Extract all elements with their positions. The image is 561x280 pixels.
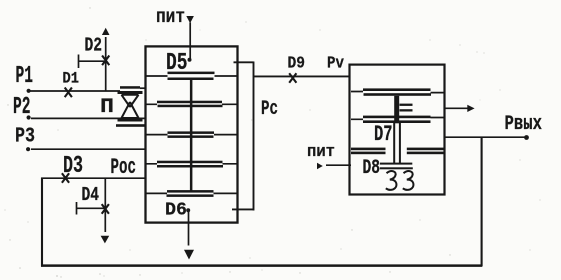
- svg-text:Pc: Pc: [261, 98, 278, 121]
- svg-text:D4: D4: [82, 184, 100, 206]
- svg-text:D5: D5: [166, 50, 188, 77]
- svg-text:P1: P1: [16, 63, 34, 90]
- svg-text:D9: D9: [288, 55, 306, 74]
- svg-text:D3: D3: [63, 153, 83, 180]
- svg-text:P2: P2: [13, 94, 31, 121]
- svg-text:П: П: [100, 96, 114, 119]
- svg-text:D2: D2: [85, 35, 103, 57]
- svg-text:пит: пит: [156, 6, 185, 28]
- svg-text:D6: D6: [165, 200, 187, 220]
- svg-text:D1: D1: [63, 70, 80, 88]
- svg-text:Рвых: Рвых: [505, 113, 543, 136]
- svg-text:Pv: Pv: [327, 55, 344, 74]
- svg-text:D8: D8: [363, 157, 381, 180]
- svg-text:P3: P3: [15, 125, 35, 149]
- svg-text:D7: D7: [374, 122, 393, 147]
- svg-text:Poc: Poc: [111, 155, 137, 180]
- svg-text:пит: пит: [307, 143, 335, 162]
